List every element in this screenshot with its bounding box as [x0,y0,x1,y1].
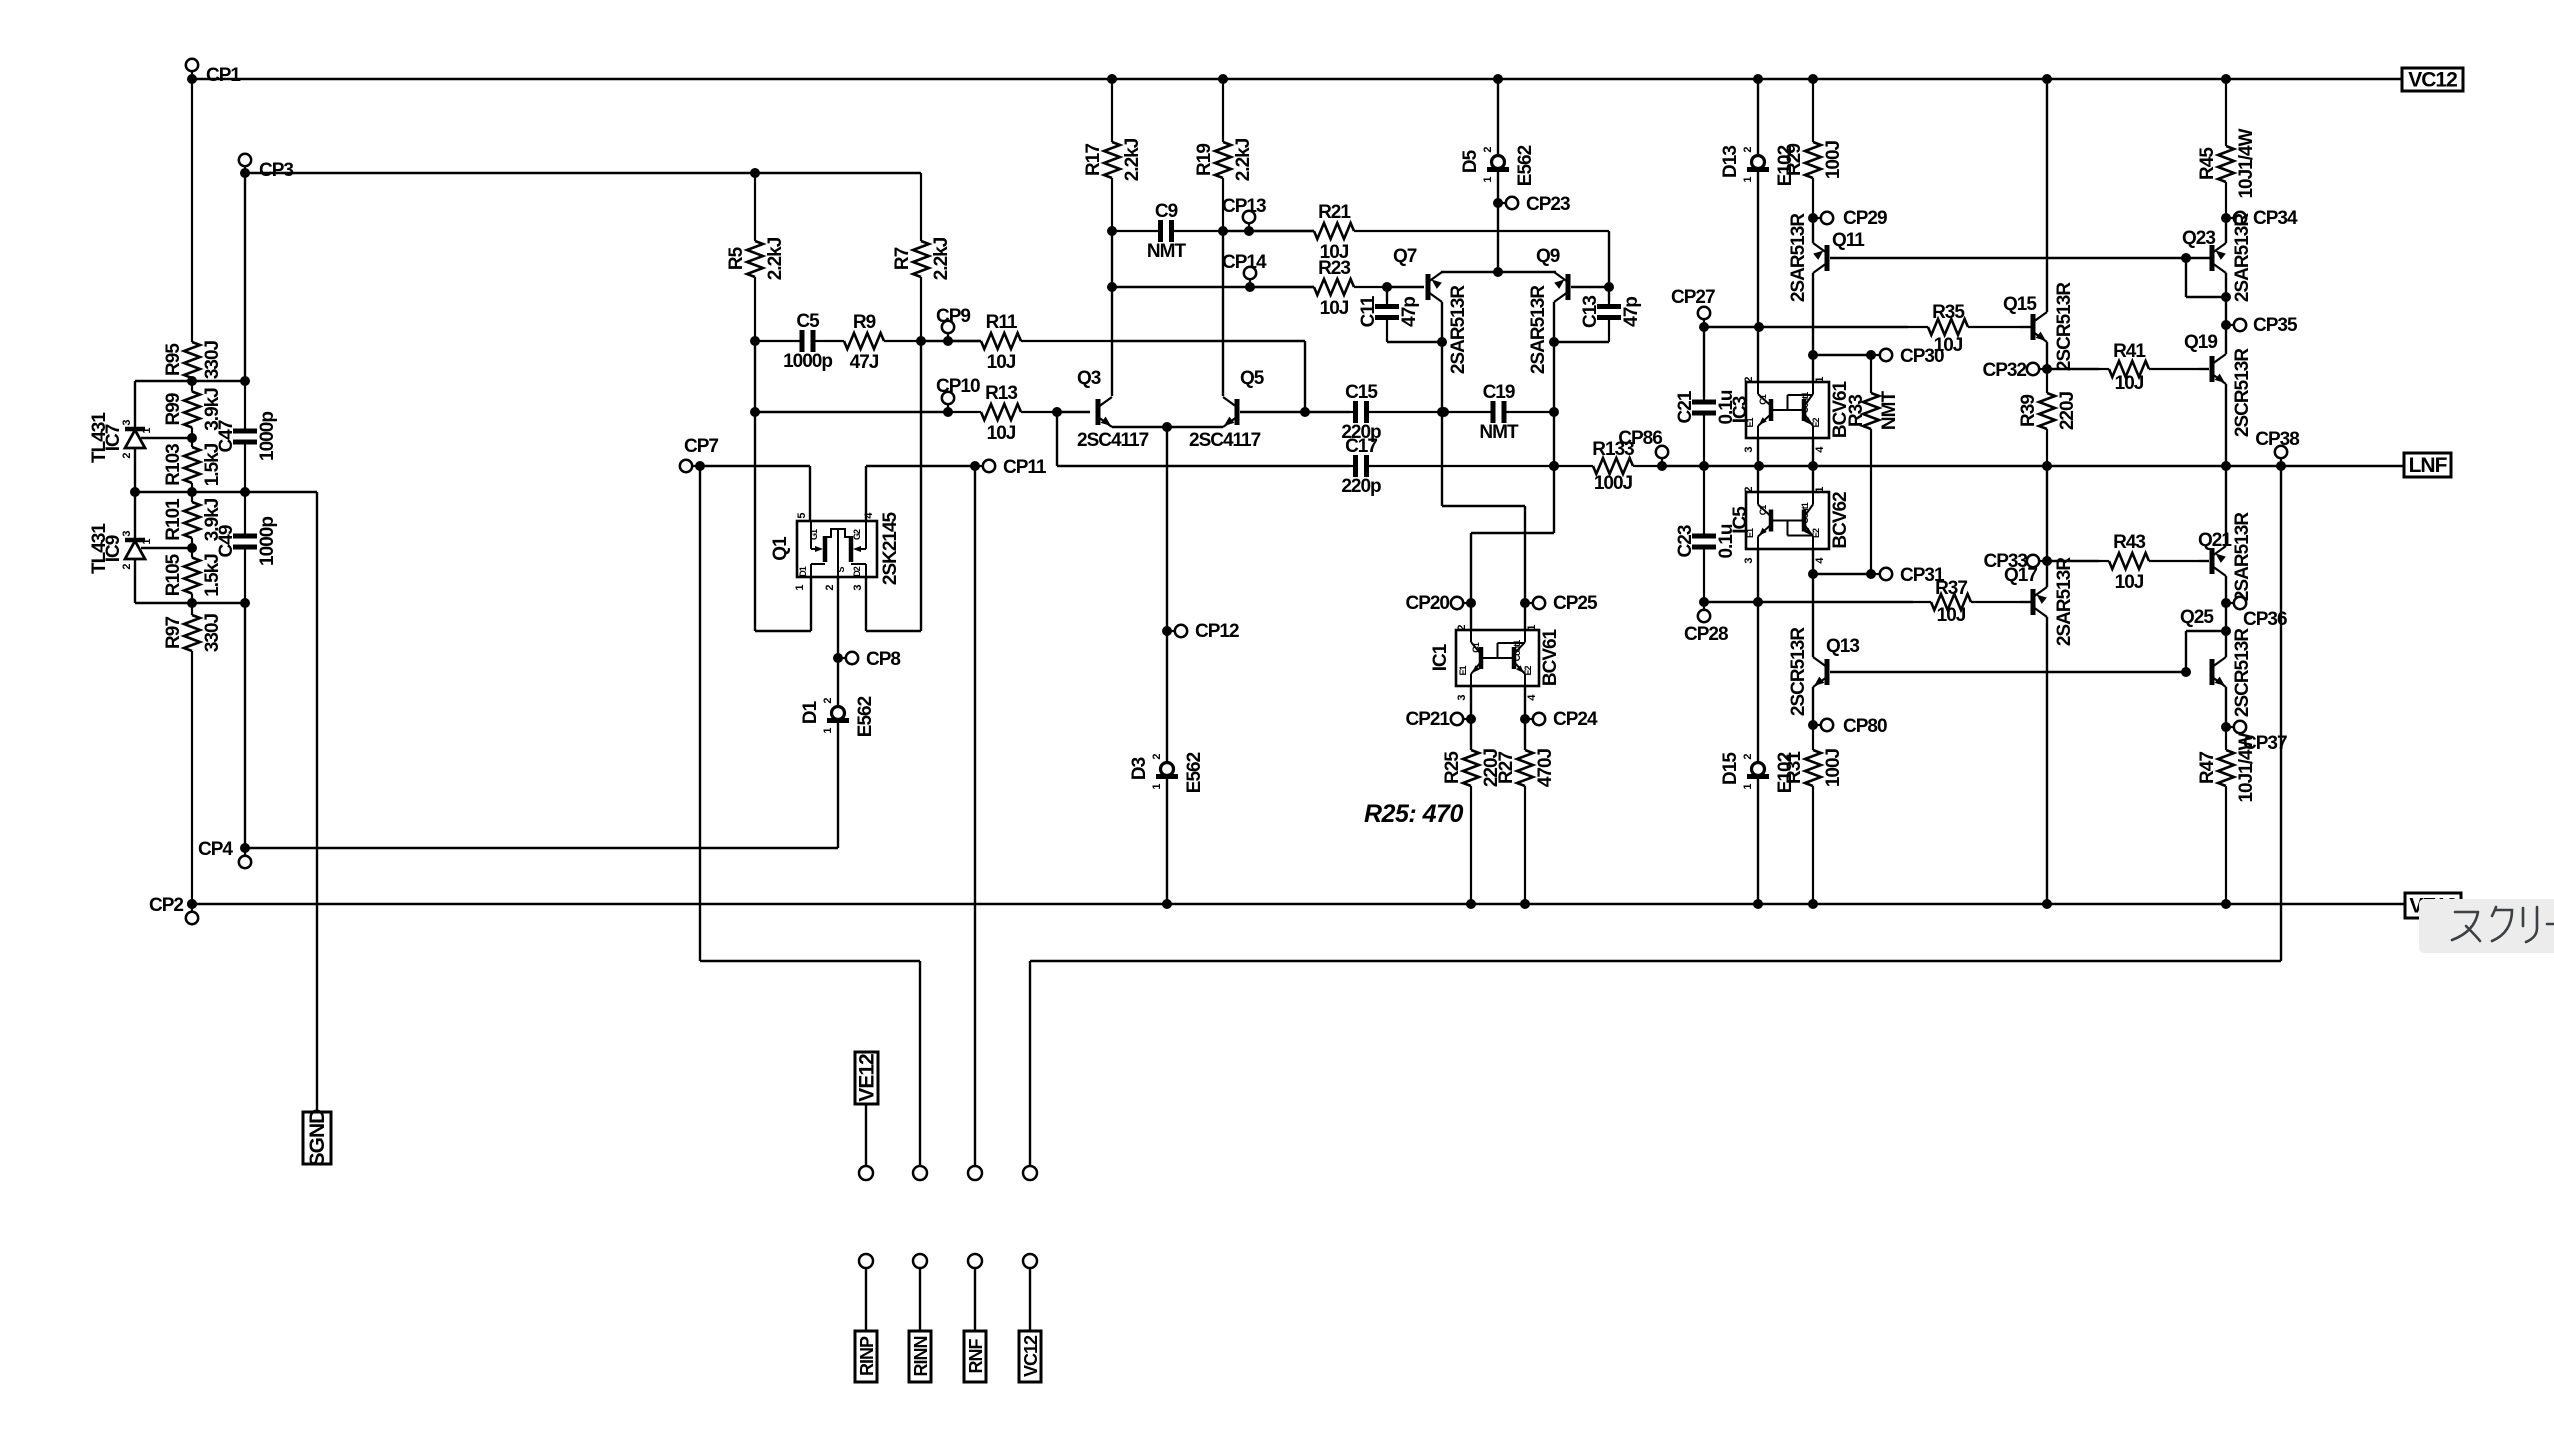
wire Q7 collector [1441,302,1443,506]
resistor R45 [2225,79,2227,146]
svg-text:R97: R97 [163,617,184,649]
wire [134,448,136,540]
wire [1497,203,1499,272]
svg-text:CP34: CP34 [2253,208,2298,229]
pad [968,1254,982,1268]
svg-text:C21: C21 [1675,390,1696,423]
svg-text:VE12: VE12 [856,1054,879,1102]
svg-text:C47: C47 [216,420,237,452]
wire [1812,273,1814,355]
wire [2225,325,2227,354]
wire [700,960,920,962]
junction CP31 [1808,569,1818,579]
wire to CP20 [1470,533,1472,603]
pad [968,1166,982,1180]
check pin CP14 [1249,273,1251,287]
svg-text:D5: D5 [1460,149,1481,173]
wire VE12 bottom rail [192,903,2405,905]
wire [2047,560,2099,562]
svg-text:1000p: 1000p [257,412,278,461]
check pin CP1 [191,65,193,79]
svg-text:Cont1: Cont1 [1512,640,1522,661]
resistor R27 [1517,750,1533,786]
check pin CP24 [1525,718,1539,720]
x [2199,368,2209,370]
svg-text:10J: 10J [2115,373,2144,394]
wire [1166,777,1168,904]
svg-text:CP9: CP9 [936,306,970,327]
svg-text:2SCR513R: 2SCR513R [2232,628,2253,717]
junction [2221,74,2231,84]
wire [1812,218,1814,243]
shunt regulator IC9 TL431 [125,538,145,543]
transistor Q21 [2210,548,2215,574]
pad [913,1254,927,1268]
svg-text:CP32: CP32 [1982,360,2026,381]
transistor Q7 [1426,274,1431,300]
junction [1754,322,1764,332]
junction [2221,292,2231,302]
wire [134,381,136,429]
svg-text:10J: 10J [987,423,1016,444]
resistor R5 [754,173,756,241]
svg-text:CP13: CP13 [1222,196,1266,217]
svg-text:3: 3 [852,585,864,591]
diode D13 [1752,156,1765,169]
check pin CP27 [1703,313,1705,327]
transistor Q3 [1096,399,1101,425]
svg-text:100J: 100J [1823,140,1844,179]
wire [1812,466,1814,492]
svg-text:Q7: Q7 [1393,246,1417,267]
pad [913,1166,927,1180]
svg-text:CP21: CP21 [1405,709,1450,730]
svg-text:C23: C23 [1675,525,1696,557]
check pin CP35 [2226,324,2240,326]
wire [2046,561,2048,587]
check pin CP10 [947,398,949,412]
wire [1250,286,1314,288]
svg-text:1: 1 [1526,625,1538,631]
wire [244,603,246,848]
svg-text:CP20: CP20 [1405,593,1449,614]
svg-text:E1: E1 [1458,666,1468,676]
junction [1437,407,1447,417]
resistor R99 [191,381,193,392]
svg-text:Q3: Q3 [1077,368,1101,389]
check pin CP38 [2280,452,2282,466]
wire [135,380,245,382]
wire [755,630,811,632]
svg-text:CP14: CP14 [1222,252,1267,273]
check pin CP33 [2033,560,2047,562]
svg-text:47p: 47p [1399,297,1420,327]
svg-text:R37: R37 [1935,578,1967,599]
dual transistor IC1 BCV61 [1456,630,1539,686]
resistor R103 [191,438,193,447]
wire [2186,257,2210,259]
svg-text:1: 1 [1814,487,1826,493]
wire CP11 down [974,466,976,1166]
svg-text:R7: R7 [892,247,913,270]
svg-text:2SAR513R: 2SAR513R [1528,285,1549,374]
junction [1549,461,1559,471]
capacitor C23 [1703,466,1705,536]
junction [2181,667,2191,677]
svg-text:CP2: CP2 [149,895,183,916]
svg-text:RINP: RINP [857,1336,877,1376]
wire [1757,170,1759,327]
svg-text:BCV62: BCV62 [1830,492,1851,549]
net label LNF [2404,453,2451,477]
svg-text:IC7: IC7 [103,424,124,451]
svg-text:R105: R105 [163,553,184,596]
svg-text:2SC4117: 2SC4117 [1189,430,1261,451]
svg-text:R101: R101 [163,498,184,541]
wire to Q7 base [1387,286,1424,288]
svg-text:Cont1: Cont1 [1800,502,1810,523]
svg-text:R21: R21 [1318,202,1351,223]
svg-text:330J: 330J [202,340,223,379]
wire [1812,549,1814,574]
svg-text:R9: R9 [853,312,876,333]
pad [1023,1166,1037,1180]
svg-text:330J: 330J [202,613,223,652]
resistor R31 [1812,725,1814,750]
svg-text:1.5kJ: 1.5kJ [202,554,223,597]
svg-text:Q11: Q11 [1832,230,1865,251]
svg-text:CP11: CP11 [1003,457,1047,478]
svg-text:1000p: 1000p [783,351,832,372]
wire [2020,601,2031,603]
svg-text:R95: R95 [163,343,184,376]
svg-text:Q21: Q21 [2198,530,2232,551]
svg-text:R11: R11 [986,312,1018,333]
wire [1812,438,1814,466]
svg-text:1: 1 [1482,177,1494,183]
svg-text:VC12: VC12 [2408,69,2457,92]
wire [1812,687,1814,725]
svg-text:2: 2 [1482,147,1494,153]
transistor Q19 [2210,356,2215,382]
svg-text:R19: R19 [1194,144,1215,176]
wire [1608,287,1610,301]
resistor R97 [191,603,193,615]
svg-text:47p: 47p [1621,297,1642,327]
transistor Q17 [2031,589,2036,615]
junction CP30 [1808,350,1818,360]
wire [1554,341,1609,343]
capacitor C21 [1703,397,1705,402]
svg-text:CP86: CP86 [1618,428,1662,449]
check pin CP37 [2226,726,2240,728]
junction [187,433,197,443]
transistor Q25 [2210,659,2215,685]
svg-text:D15: D15 [1720,752,1741,785]
junction [187,598,197,608]
wire to Q9 base [1608,231,1610,287]
wire [2225,576,2227,603]
junction [187,899,197,909]
x [2199,560,2209,562]
wire [1757,777,1759,904]
resistor R13 [948,411,981,413]
svg-text:3: 3 [1743,558,1755,564]
svg-text:D2: D2 [852,566,862,576]
wire emitter bridge [1112,426,1223,428]
wire to Q5 base [1304,341,1306,412]
wire [1524,686,1526,719]
wire [2185,258,2187,297]
junction [1162,422,1172,432]
wire tail [1166,427,1168,631]
svg-text:CP27: CP27 [1671,287,1715,308]
capacitor C17 [1350,465,1356,467]
svg-text:2SAR513R: 2SAR513R [1788,213,1809,302]
junction [1107,226,1117,236]
wire [1442,505,1525,507]
svg-text:1: 1 [822,728,834,734]
wire [1757,79,1759,155]
check pin CP86 [1661,452,1663,466]
svg-text:2: 2 [1456,625,1468,631]
wire [1757,327,1759,382]
resistor R23 [1250,286,1314,288]
wire [1524,719,1526,750]
wire [1223,230,1249,232]
wire to Q1 drain1 [810,577,812,631]
resistor R29 [1812,79,1814,142]
wire Q17 emitter [2046,617,2048,904]
wire [2020,326,2031,328]
svg-text:10J: 10J [1937,605,1966,626]
capacitor C11 [1386,301,1388,307]
svg-text:2SK2145: 2SK2145 [880,511,901,585]
junction [1493,74,1503,84]
net label RNF [964,1331,986,1382]
diode D15 [1752,763,1765,776]
junction [2221,626,2231,636]
junction [916,336,926,346]
junction [1549,461,1559,471]
wire [1813,354,1871,356]
svg-text:CP36: CP36 [2243,609,2287,630]
svg-text:2SAR513R: 2SAR513R [1448,285,1469,374]
net label VC12 [2402,68,2463,91]
svg-text:Q9: Q9 [1536,246,1560,267]
svg-text:CP25: CP25 [1553,593,1598,614]
check pin CP29 [1813,217,1827,219]
junction [1107,282,1117,292]
svg-text:CP24: CP24 [1553,709,1598,730]
svg-text:3: 3 [121,531,133,537]
capacitor C19 [1444,411,1493,413]
check pin CP21 [1457,718,1471,720]
junction [1466,899,1476,909]
svg-text:1: 1 [1814,377,1826,383]
svg-text:100J: 100J [1594,473,1633,494]
wire [2225,466,2227,546]
junction [1520,899,1530,909]
svg-text:2: 2 [1743,377,1755,383]
wire [135,491,317,493]
wire to SGND [316,492,318,1112]
net label SGND [303,1112,331,1164]
svg-text:BCV61: BCV61 [1830,380,1851,438]
check pin CP34 [2226,217,2240,219]
svg-text:C49: C49 [216,525,237,557]
junction [1218,226,1228,236]
wire [837,721,839,848]
wire [1470,686,1472,719]
svg-text:CP7: CP7 [684,436,718,457]
wire Q19 emitter [2225,384,2227,466]
check pin CP32 [2033,368,2047,370]
resistor R105 [191,548,193,558]
wire [1497,79,1499,155]
check pin CP2 [191,904,193,918]
svg-text:NMT: NMT [1879,391,1900,431]
wire [920,341,922,631]
check pin CP25 [1525,602,1539,604]
wire to Q1 gate1 [809,466,811,521]
svg-text:R35: R35 [1932,302,1965,323]
svg-text:CP3: CP3 [259,160,293,181]
wire [2225,603,2227,631]
wire [1757,438,1759,466]
net label VE12 [855,1052,878,1104]
net label VE12 [2405,893,2461,918]
svg-text:R99: R99 [163,393,184,425]
shunt regulator IC7 TL431 [125,427,145,432]
capacitor C13 [1608,301,1610,307]
svg-text:C1: C1 [1758,505,1768,515]
pad [1023,1254,1037,1268]
svg-text:3: 3 [121,420,133,426]
wire LNF row right [1704,465,2404,467]
svg-text:220p: 220p [1341,476,1381,497]
wire [1662,465,1704,467]
wire [1470,719,1472,750]
svg-text:2.2kJ: 2.2kJ [931,237,952,280]
wire [2186,296,2226,298]
svg-text:47J: 47J [850,352,879,373]
check pin CP20 [1457,602,1471,604]
wire Q5 base [1240,411,1305,413]
wire [1524,603,1526,630]
wire [948,340,981,342]
svg-text:2SAR513R: 2SAR513R [2232,512,2253,601]
dual JFET Q1 2SK2145 [797,521,877,577]
pad [859,1166,873,1180]
wire [2225,687,2227,727]
junction [1493,267,1503,277]
svg-text:Q17: Q17 [2004,565,2037,586]
capacitor C49 [244,492,246,536]
svg-text:E2: E2 [1811,418,1821,428]
svg-text:RINN: RINN [911,1337,931,1377]
svg-text:2: 2 [1742,754,1754,760]
wire CP4 to D1 [245,847,838,849]
wire [700,465,810,467]
resistor R7 [920,173,922,241]
svg-text:R13: R13 [985,383,1017,404]
wire Q11 base row [1830,257,2186,259]
svg-text:C11: C11 [1358,295,1379,327]
wire [919,961,921,1166]
svg-text:CP80: CP80 [1843,716,1887,737]
junction [1107,74,1117,84]
diode D3 [1161,763,1174,776]
junction [750,336,760,346]
svg-text:10J1/4W: 10J1/4W [2236,128,2257,198]
svg-text:1: 1 [1151,784,1163,790]
svg-text:SGND: SGND [306,1109,329,1167]
svg-text:2: 2 [822,698,834,704]
svg-text:CP4: CP4 [198,839,233,860]
svg-text:CP35: CP35 [2253,315,2298,336]
transistor Q13 [1825,659,1830,685]
wire [1813,573,1871,575]
svg-text:E562: E562 [1515,145,1536,186]
pad [859,1254,873,1268]
transistor Q9 [1566,274,1571,300]
svg-text:RNF: RNF [966,1339,986,1374]
wire [974,1268,976,1331]
svg-text:C9: C9 [1155,201,1178,222]
svg-text:Q23: Q23 [2182,228,2215,249]
svg-text:1: 1 [141,428,153,434]
svg-text:R25: R25 [1442,751,1463,784]
junction [2221,461,2231,471]
svg-text:R17: R17 [1083,144,1104,176]
wire [1029,961,1031,1166]
svg-text:3: 3 [1456,695,1468,701]
resistor R35 [1908,326,1928,328]
junction [1604,282,1614,292]
diode D5 [1492,156,1505,169]
wire [135,602,245,604]
svg-text:CP38: CP38 [2255,429,2299,450]
junction [1300,407,1310,417]
wire [1029,1268,1031,1331]
svg-text:D1: D1 [798,566,808,576]
wire LNF row left [1057,465,1350,467]
junction [1549,407,1559,417]
svg-text:2SC4117: 2SC4117 [1077,430,1149,451]
svg-text:R43: R43 [2113,532,2145,553]
resistor R43 [2099,560,2109,562]
junction [1549,337,1559,347]
capacitor C47 [244,381,246,431]
wire [865,1104,867,1166]
wire [921,340,948,342]
resistor R101 [191,492,193,502]
wire [1759,601,1913,603]
wire [866,465,975,467]
svg-text:CP1: CP1 [206,65,241,86]
junction [1439,407,1449,417]
junction [130,487,140,497]
check pin CP3 [244,160,246,173]
svg-text:10J1/4W: 10J1/4W [2236,732,2257,802]
wire CP3 row [245,172,921,174]
svg-text:470J: 470J [1535,748,1556,787]
svg-text:C17: C17 [1345,436,1377,457]
wire [2225,273,2227,325]
svg-text:BCV61: BCV61 [1540,628,1561,686]
svg-text:10J: 10J [1320,298,1349,319]
